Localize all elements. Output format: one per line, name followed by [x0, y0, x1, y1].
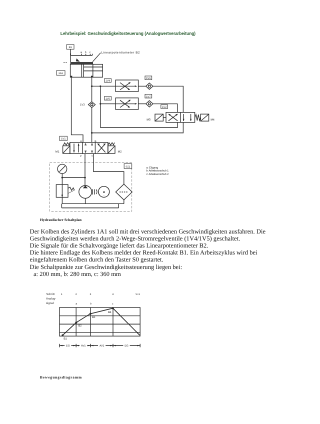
- svg-text:T: T: [91, 155, 93, 158]
- svg-text:1V5: 1V5: [105, 97, 110, 100]
- wire relief to tank: [61, 197, 63, 203]
- solenoid M1: [63, 146, 70, 154]
- svg-text:Schritt:: Schritt:: [46, 292, 55, 296]
- svg-text:Bewegungsdiagramm: Bewegungsdiagramm: [40, 375, 83, 379]
- check valve 1V6: [146, 83, 153, 89]
- trajectory dots: [62, 334, 64, 336]
- svg-text:eingefahrenem Kolben durch den: eingefahrenem Kolben durch den Taster S0…: [30, 257, 164, 264]
- svg-text:B1: B1: [64, 338, 68, 341]
- check valve 1V7: [146, 101, 153, 107]
- tank: [62, 204, 119, 208]
- wire 1V2 bottom right return: [92, 122, 183, 132]
- wire 1V2 bottom left return: [100, 122, 177, 127]
- svg-text:1V1: 1V1: [61, 138, 66, 141]
- step header: [46, 292, 141, 305]
- svg-text:5=1: 5=1: [136, 293, 141, 296]
- node branch at B-line: [91, 85, 93, 87]
- axis arrowheads: [60, 345, 140, 346]
- solenoid M2: [108, 146, 115, 154]
- tiny marks left of bar: [64, 61, 65, 64]
- wire gauge stem: [61, 174, 63, 185]
- wire 1V6 to valve 1V2: [153, 86, 183, 112]
- directional valve 1V2 (4/2): [166, 112, 195, 122]
- cylinder label 1A1: [57, 71, 66, 76]
- label 1V2: [161, 105, 168, 109]
- pressure relief valve: [56, 185, 74, 198]
- svg-text:1V4: 1V4: [105, 80, 110, 83]
- svg-text:Der Kolben des Zylinders 1A1 s: Der Kolben des Zylinders 1A1 soll mit dr…: [30, 228, 266, 235]
- svg-text:B1: B1: [69, 46, 73, 49]
- reed contact B1 label box: [67, 45, 74, 50]
- svg-text:M4: M4: [211, 118, 215, 122]
- bottom axis ticks: [60, 344, 141, 347]
- wire A-line: [71, 77, 83, 142]
- power unit enclosure 0Z1: [50, 163, 132, 212]
- svg-text:b: b: [90, 302, 92, 305]
- node bus top: [100, 85, 102, 87]
- directional valve 1V1 (4/3): [60, 136, 68, 141]
- wire bus vertical: [99, 86, 101, 127]
- wire B-line upper: [91, 77, 93, 101]
- cylinder 1A1 barrel: [70, 64, 102, 77]
- svg-text:c: c: [89, 51, 91, 54]
- wire B1 to cylinder: [70, 49, 72, 62]
- flow control valve 1V4: [116, 80, 139, 92]
- svg-text:Die Schaltpunkte zur Geschwind: Die Schaltpunkte zur Geschwindigkeitsste…: [30, 264, 183, 271]
- svg-text:M1: M1: [55, 149, 59, 153]
- svg-text:signal:: signal:: [46, 301, 55, 305]
- wire T-line: [94, 154, 124, 185]
- svg-text:EG: EG: [125, 345, 129, 348]
- svg-text:0Z1: 0Z1: [126, 166, 131, 169]
- trajectory labels: [64, 311, 112, 341]
- svg-text:AV2: AV2: [99, 345, 104, 348]
- svg-text:1A1: 1A1: [58, 72, 63, 75]
- wire 1V4 out: [138, 85, 146, 87]
- axis segment labels: [65, 344, 130, 348]
- svg-text:b: b: [85, 51, 87, 54]
- wire B-line lower: [91, 108, 93, 143]
- node return joins B-line: [91, 132, 93, 134]
- potentiometer scale line with ticks: [71, 53, 93, 55]
- wire 1V7 to valve 1V2: [153, 104, 178, 113]
- check valve 1V3 (inline diamond): [88, 102, 95, 108]
- svg-text:Linearpotentiometer B2: Linearpotentiometer B2: [101, 51, 140, 55]
- svg-text:Die hintere Endlage des Kolben: Die hintere Endlage des Kolbens meldet d…: [30, 250, 258, 257]
- svg-text:1V7: 1V7: [146, 95, 151, 98]
- diagram grid: [60, 308, 141, 337]
- svg-text:Hydraulischer Schaltplan: Hydraulischer Schaltplan: [40, 218, 82, 222]
- svg-text:c: Arbeitsvorschub 2: c: Arbeitsvorschub 2: [146, 173, 169, 176]
- svg-text:4: 4: [112, 293, 114, 296]
- svg-text:a: a: [80, 51, 82, 54]
- svg-text:1V2: 1V2: [162, 106, 167, 109]
- piston rod: [84, 67, 103, 71]
- svg-text:P: P: [80, 155, 82, 158]
- wire lower row input: [100, 103, 115, 105]
- svg-text:AV1: AV1: [81, 345, 86, 348]
- svg-text:B4: B4: [108, 311, 112, 314]
- svg-text:Analog-: Analog-: [46, 297, 56, 301]
- svg-text:2: 2: [75, 293, 77, 296]
- svg-text:B3: B3: [92, 316, 96, 319]
- tank header line: [62, 203, 124, 205]
- svg-text:B2: B2: [78, 325, 82, 328]
- potentiometer bar B2: [70, 62, 93, 64]
- solenoid M3: [155, 114, 166, 121]
- svg-text:1V6: 1V6: [146, 77, 151, 80]
- wire gauge to P-line: [62, 177, 85, 179]
- spring and solenoid M4: [195, 115, 201, 121]
- svg-text:a: 200 mm, b: 280 mm, c: 360 m: a: 200 mm, b: 280 mm, c: 360 mm: [34, 271, 122, 278]
- potentiometer wiper arrow: [76, 58, 80, 61]
- svg-text:Die Signale für die Schaltvorg: Die Signale für die Schaltvorgänge liefe…: [30, 243, 209, 250]
- wire 1V5 out: [138, 103, 146, 105]
- wire P-line: [84, 154, 86, 186]
- svg-text:M2: M2: [118, 149, 122, 153]
- filter: [116, 184, 132, 200]
- coupling: [93, 189, 97, 194]
- svg-text:a: a: [76, 302, 78, 305]
- leader line to label: [93, 53, 101, 62]
- pressure gauge: [58, 164, 67, 173]
- svg-text:~: ~: [103, 194, 105, 197]
- svg-text:M3: M3: [147, 118, 151, 122]
- pump: [79, 186, 92, 199]
- svg-text:1: 1: [61, 293, 63, 296]
- cylinder port dots: [71, 76, 73, 78]
- node bus lower: [100, 103, 102, 105]
- piston: [81, 64, 83, 77]
- svg-text:c: c: [112, 302, 114, 305]
- svg-text:3: 3: [90, 293, 92, 296]
- wire branch to flow valves: [92, 85, 116, 87]
- svg-text:EG: EG: [66, 345, 70, 348]
- svg-text:1V3: 1V3: [80, 104, 85, 107]
- flow control valve 1V5: [116, 98, 139, 110]
- motor M: [98, 186, 109, 197]
- svg-text:Geschwindigkeiten werden durch: Geschwindigkeiten werden durch 2-Wege-St…: [30, 236, 241, 243]
- paragraph: [30, 228, 266, 278]
- trajectory: [63, 308, 140, 335]
